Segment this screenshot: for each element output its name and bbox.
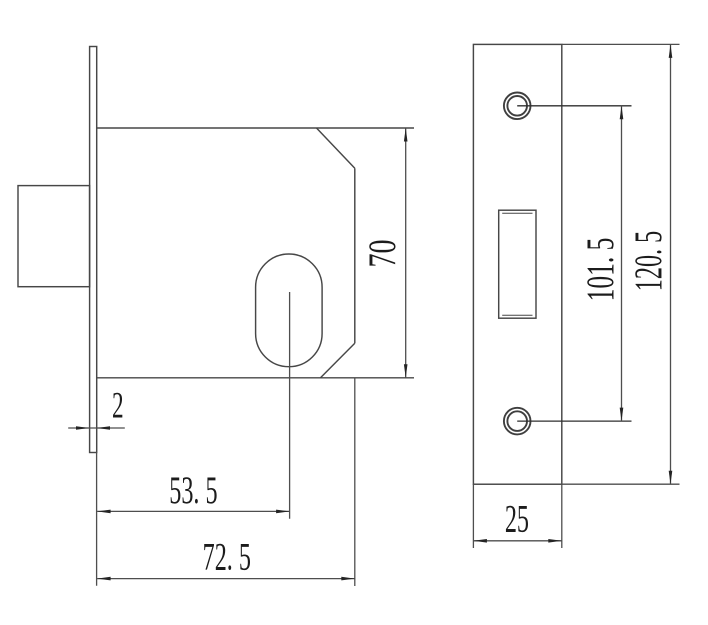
svg-text:101. 5: 101. 5 (580, 238, 623, 302)
svg-text:25: 25 (505, 498, 529, 541)
svg-text:72. 5: 72. 5 (203, 536, 251, 579)
svg-text:53. 5: 53. 5 (169, 469, 217, 512)
svg-text:2: 2 (112, 384, 124, 426)
svg-text:120. 5: 120. 5 (627, 231, 670, 291)
svg-text:70: 70 (362, 239, 404, 267)
